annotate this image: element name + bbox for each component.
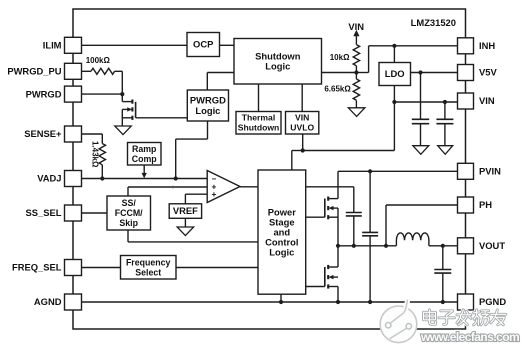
node boot cap to PH rail (352, 244, 356, 248)
svg-text:6.65kΩ: 6.65kΩ (324, 85, 351, 94)
svg-text:ILIM: ILIM (43, 40, 62, 51)
svg-text:VADJ: VADJ (37, 173, 61, 184)
pin PWRGD_PU (7, 63, 81, 79)
block Ramp Comp (128, 143, 162, 166)
node Q3 source on ground rail (336, 300, 340, 304)
node output cap to ground rail (441, 300, 445, 304)
pin ILIM (43, 37, 82, 53)
wire comparator output to power stage (240, 186, 258, 188)
op-amp U1 error comparator (207, 171, 240, 203)
wire VIN UVLO to VIN sense line (302, 134, 304, 151)
wire Shutdown Logic to PWRGD Logic (207, 73, 234, 91)
node PH junction (384, 244, 388, 248)
svg-text:SENSE+: SENSE+ (24, 128, 62, 139)
svg-text:VIN: VIN (479, 95, 495, 106)
pin AGND (34, 294, 82, 310)
svg-text:SS/: SS/ (122, 198, 137, 208)
svg-text:Comp: Comp (132, 154, 158, 164)
wire down to LDO input (393, 46, 395, 63)
pin SS_SEL (26, 205, 82, 221)
node LDO-VIN junction (392, 100, 396, 104)
wire LDO output to V5V pin (411, 72, 458, 74)
block VIN UVLO (286, 112, 319, 135)
svg-text:OCP: OCP (193, 39, 213, 50)
wire Q2 gate (306, 216, 325, 218)
svg-text:www.elecfans.com: www.elecfans.com (420, 330, 519, 344)
resistor R3 10k (353, 45, 359, 73)
pin PWRGD (26, 86, 82, 102)
ground below Q1 (115, 126, 132, 135)
svg-text:PH: PH (479, 199, 492, 210)
ground below R4 (348, 108, 365, 117)
label R2 1.43k (91, 141, 100, 168)
wire Shutdown Logic to divider (322, 72, 357, 74)
wire VIN sense line (292, 151, 395, 171)
svg-text:UVLO: UVLO (290, 123, 314, 133)
wire PVIN rail (338, 170, 458, 172)
wire power stage bottom to ground rail (280, 294, 282, 302)
node PVIN to input cap (368, 169, 372, 173)
svg-text:LDO: LDO (385, 68, 405, 79)
node input cap to ground rail (368, 300, 372, 304)
wire SS block bottom to power stage (128, 230, 258, 242)
wire ILIM to OCP (82, 44, 188, 46)
capacitor C3 boot cap (346, 187, 362, 246)
wire PWRGD Logic sense tap (176, 121, 208, 179)
svg-text:AGND: AGND (34, 296, 62, 307)
pin FREQ_SEL (12, 260, 82, 276)
svg-text:1.43kΩ: 1.43kΩ (91, 141, 100, 168)
pin PGND (458, 294, 507, 310)
wire boot rail from power stage (306, 186, 354, 188)
block U4 Power Stage and Control Logic (258, 170, 306, 294)
svg-text:PWRGD: PWRGD (26, 88, 62, 99)
node switch node on PH rail (336, 244, 340, 248)
svg-text:10kΩ: 10kΩ (330, 53, 350, 62)
block VREF (169, 204, 201, 219)
part label LMZ31520 (411, 17, 456, 28)
svg-text:Logic: Logic (265, 61, 290, 72)
svg-text:PWRGD_PU: PWRGD_PU (7, 66, 61, 77)
wire AGND rail to PGND pin (82, 301, 458, 303)
pin VADJ (37, 171, 81, 187)
inductor L1 (396, 233, 429, 246)
capacitor C4 input cap PVIN-PGND (362, 171, 378, 302)
node VOUT cap junction (441, 244, 445, 248)
block SS/FCCM/Skip (107, 196, 151, 230)
resistor R2 1.43k (99, 144, 105, 179)
svg-text:Ramp: Ramp (132, 144, 157, 154)
block OCP (187, 33, 220, 57)
wire PWRGD pin to FET drain node (82, 93, 123, 95)
IC boundary box (73, 9, 466, 329)
svg-text:100kΩ: 100kΩ (86, 56, 111, 65)
wire VREF to error amp + input (185, 194, 207, 204)
wire L1 to VOUT pin (429, 245, 458, 247)
svg-text:FCCM/: FCCM/ (115, 208, 143, 218)
svg-text:INH: INH (479, 40, 495, 51)
arrow Ramp Comp into VADJ line (142, 165, 147, 178)
svg-text:Thermal: Thermal (242, 113, 275, 123)
watermark url www.elecfans.com (420, 330, 519, 344)
block U3 PWRGD Logic (187, 90, 228, 121)
wire Shutdown Logic to Thermal Shutdown (258, 84, 260, 112)
pin INH (458, 38, 496, 54)
label R1 100k (86, 56, 111, 65)
svg-text:Shutdown: Shutdown (238, 123, 280, 133)
wire LDO bottom to VIN line (393, 86, 395, 151)
node INH line to LDO (392, 44, 396, 48)
wire divider to INH pin (356, 46, 457, 73)
wire Shutdown Logic to VIN UVLO (301, 84, 303, 112)
node V5V cap junction (418, 70, 422, 74)
node PWRGD junction (120, 92, 124, 96)
capacitor C1 on V5V (412, 73, 429, 146)
capacitor C2 on VIN (436, 102, 453, 146)
block U2 Shutdown Logic (234, 39, 322, 85)
wire SS block to error amp + input (128, 187, 207, 196)
pin PVIN (458, 163, 502, 179)
transistor Q3 low-side FET (325, 246, 338, 302)
wire PH pin (386, 205, 458, 246)
node R2 to VADJ line (100, 176, 104, 180)
wire R1 down to PWRGD net (121, 71, 123, 94)
svg-text:+: + (211, 189, 216, 199)
label R3 10k (330, 53, 350, 62)
svg-text:PVIN: PVIN (479, 166, 501, 177)
svg-text:Logic: Logic (195, 105, 220, 116)
node small junction on + input line (172, 186, 175, 189)
wire SS_SEL to SS block (82, 212, 108, 214)
svg-text:Frequency: Frequency (126, 258, 171, 268)
watermark text dianzifashaoyou (424, 310, 506, 325)
label R4 6.65k (324, 85, 351, 94)
svg-text:VREF: VREF (173, 205, 198, 216)
svg-text:VIN: VIN (295, 113, 309, 123)
pin VOUT (458, 238, 506, 254)
resistor R4 6.65k (353, 73, 359, 108)
svg-text:V5V: V5V (479, 67, 497, 78)
transistor Q1 PWRGD open-drain FET (122, 94, 135, 126)
wire PH rail (338, 245, 396, 247)
node divider junction (354, 70, 358, 74)
ground below VREF (177, 227, 194, 236)
wire OCP to Shutdown Logic (220, 44, 235, 46)
wire SENSE+ to R2 (82, 134, 103, 144)
pin VIN (458, 93, 495, 109)
node UVLO junction (301, 148, 305, 152)
svg-text:SS_SEL: SS_SEL (26, 207, 62, 218)
wire FREQ_SEL to Frequency Select (82, 267, 121, 269)
resistor R1 100k pull-up (82, 68, 123, 74)
ground below C1 (413, 146, 429, 155)
svg-text:FREQ_SEL: FREQ_SEL (12, 262, 62, 273)
block Thermal Shutdown (236, 112, 281, 135)
wire Frequency Select to power stage (176, 267, 258, 269)
wire VIN pin line (394, 101, 457, 103)
block Frequency Select (121, 256, 177, 280)
wire VADJ feedback line to error amp inverting input (82, 178, 208, 180)
supply arrow VIN (348, 21, 364, 45)
wire Q3 gate (306, 286, 325, 288)
capacitor C5 output cap (434, 246, 451, 302)
svg-text:VOUT: VOUT (479, 240, 505, 251)
node power stage ground (279, 300, 283, 304)
ground below C2 (438, 146, 453, 155)
svg-text:Skip: Skip (119, 218, 138, 228)
pin SENSE+ (24, 126, 81, 142)
transistor Q2 high-side FET (325, 171, 338, 246)
svg-text:PGND: PGND (479, 296, 506, 307)
node VIN cap junction (443, 100, 447, 104)
wire Q1 gate to PWRGD Logic (136, 117, 188, 119)
block LDO (379, 63, 411, 86)
pin V5V (458, 65, 498, 81)
svg-text:Logic: Logic (269, 246, 294, 257)
svg-text:LMZ31520: LMZ31520 (411, 17, 456, 28)
watermark elecfans logo (380, 299, 417, 342)
wire VREF to ground (184, 218, 186, 227)
pin PH (458, 197, 493, 213)
svg-text:Select: Select (135, 267, 161, 277)
node PWRGD-logic tap on VADJ line (174, 176, 178, 180)
